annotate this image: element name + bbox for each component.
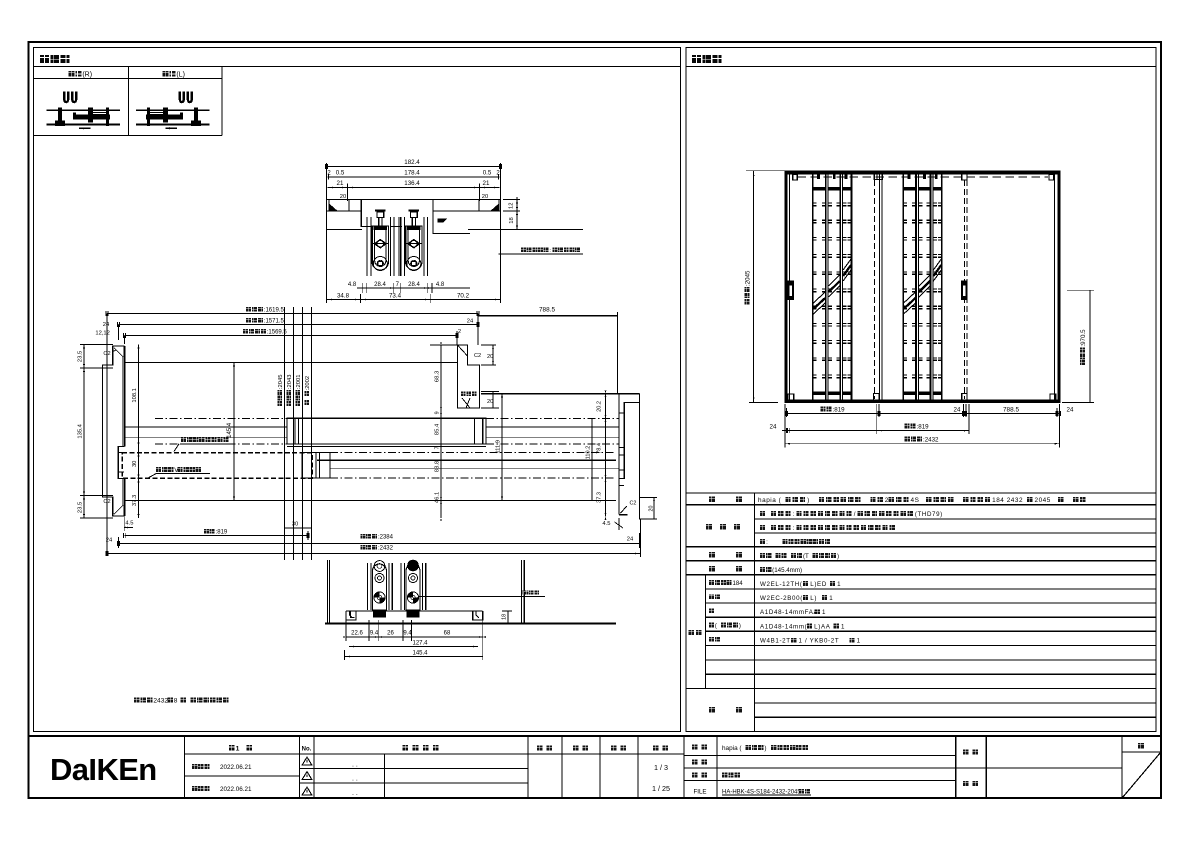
hanger side plates xyxy=(366,217,368,276)
door 2 right end cap xyxy=(473,418,475,444)
svg-text:2: 2 xyxy=(885,497,889,504)
svg-text::1571.5: :1571.5 xyxy=(264,319,285,325)
svg-text:0.5: 0.5 xyxy=(483,170,492,177)
svg-text::1619.5: :1619.5 xyxy=(264,308,285,314)
svg-text:111.9: 111.9 xyxy=(496,440,502,454)
svg-text:2022.06.21: 2022.06.21 xyxy=(220,764,252,771)
door 1 travel dash-dot right xyxy=(330,452,616,454)
svg-text:136.4: 136.4 xyxy=(404,180,420,187)
spec table 品番 column line xyxy=(705,575,707,689)
svg-text:20: 20 xyxy=(482,194,488,200)
svg-text::2432: :2432 xyxy=(923,437,939,444)
svg-text:C2: C2 xyxy=(103,351,110,357)
svg-text:182.4: 182.4 xyxy=(404,159,420,166)
svg-text:28.4: 28.4 xyxy=(408,282,420,288)
svg-text:8: 8 xyxy=(174,698,178,705)
hanger wheel xyxy=(407,239,421,249)
svg-text:12: 12 xyxy=(509,203,515,209)
svg-text:L): L) xyxy=(810,595,817,602)
door1 handle xyxy=(788,280,795,300)
svg-text:18: 18 xyxy=(509,217,515,223)
corner stop top-left xyxy=(793,175,798,180)
svg-text:(L): (L) xyxy=(176,72,185,79)
door 1 end cap 引手側 xyxy=(302,453,330,479)
floor guide bolt xyxy=(407,592,418,603)
housing stop mark xyxy=(438,219,446,222)
svg-text:DaIKEn: DaIKEn xyxy=(50,752,157,787)
T guide right xyxy=(473,611,483,620)
pictogram arrow xyxy=(79,127,90,129)
svg-text:): ) xyxy=(739,623,741,629)
svg-text:4.5: 4.5 xyxy=(602,521,610,527)
spec table row lines xyxy=(686,504,1156,506)
pictogram upper door stack xyxy=(163,108,168,123)
svg-text:73.4: 73.4 xyxy=(389,293,402,300)
svg-text:88.8: 88.8 xyxy=(435,461,441,472)
pictogram lower door bar xyxy=(73,115,110,120)
T guide mid-left xyxy=(351,611,355,618)
right jamb dims 20.2 78.4 110.2 37.3 xyxy=(605,394,607,517)
svg-text:127.4: 127.4 xyxy=(412,641,428,647)
bottom detail dims 22.6 9.4 26 9.4 68 xyxy=(346,636,483,638)
bottom detail pocket walls right xyxy=(520,560,522,624)
plan top dim 枠外幅1619.5 xyxy=(246,307,263,312)
svg-text:C2: C2 xyxy=(474,353,481,359)
svg-text:W2EL-12TH(R: W2EL-12TH(R xyxy=(760,581,808,588)
frame inner face lines xyxy=(789,175,791,401)
svg-text:(: ( xyxy=(715,623,717,629)
header 第1版 xyxy=(229,745,235,750)
plan dim 145.4 (wall depth) xyxy=(233,362,235,500)
svg-text:1 / YKB0-2T: 1 / YKB0-2T xyxy=(799,638,840,645)
plan wall line top xyxy=(124,361,457,363)
slat band verticals xyxy=(902,172,904,399)
svg-text:1 / 25: 1 / 25 xyxy=(652,784,670,793)
header 作成 xyxy=(611,745,617,750)
plan thin lines xyxy=(124,426,287,428)
pictogram cut hooks xyxy=(64,92,68,103)
svg-text:37.3: 37.3 xyxy=(597,492,603,503)
svg-text:. .: . . xyxy=(352,790,358,797)
svg-text:108.1: 108.1 xyxy=(132,388,138,403)
label 頁 xyxy=(1138,743,1144,749)
floor guide body xyxy=(373,564,387,610)
plan top dim 有効開口1569.5 xyxy=(243,329,266,334)
svg-text::: : xyxy=(766,539,768,546)
section table grid xyxy=(34,78,223,80)
slat band top caps xyxy=(813,187,825,191)
hanger top bar xyxy=(407,226,421,230)
catch dim 20 lower xyxy=(492,392,494,409)
floor guide body xyxy=(406,564,420,610)
plan opening line right section xyxy=(481,393,616,395)
spec label 仕上げ xyxy=(706,524,712,530)
svg-text:20.2: 20.2 xyxy=(597,401,603,412)
floor guide side plates xyxy=(367,563,369,610)
front frame inner bottom lines xyxy=(785,400,1060,402)
pictogram top wall line xyxy=(136,109,210,111)
svg-text:C2: C2 xyxy=(103,499,110,505)
svg-text:1: 1 xyxy=(236,746,240,753)
svg-text:145.4: 145.4 xyxy=(227,422,233,438)
svg-text:24: 24 xyxy=(627,537,634,543)
plan dim 111.9 xyxy=(501,394,503,501)
revision desc sub column xyxy=(384,754,386,798)
front bottom dim row3 枠外幅2432 xyxy=(785,443,1060,445)
floor guide marks at door bottoms xyxy=(874,394,879,401)
corner stop top-right xyxy=(1049,175,1054,180)
svg-text:(R): (R) xyxy=(82,72,92,79)
top rail top edge xyxy=(327,199,501,201)
cell label 右引(R) xyxy=(69,71,82,77)
right jamb internal tabs xyxy=(619,412,624,414)
slat band bottom caps xyxy=(813,392,825,395)
svg-text::819: :819 xyxy=(917,424,930,431)
floor guide roller mid xyxy=(408,573,417,582)
floor guide roller top xyxy=(374,561,385,572)
svg-text:30: 30 xyxy=(132,461,138,467)
door1 glass diagonal hatch xyxy=(813,292,825,303)
catch dim 20 upper xyxy=(492,345,494,365)
svg-text:No.: No. xyxy=(302,747,312,753)
svg-text:22.6: 22.6 xyxy=(351,631,363,637)
floor guide foot xyxy=(373,610,386,618)
svg-text:70.2: 70.2 xyxy=(457,293,470,300)
top detail bottom dims 34.8 73.4 70.2 xyxy=(327,299,501,301)
svg-text::2002: :2002 xyxy=(305,376,311,391)
door 2 panel (rear, solid) xyxy=(287,418,486,444)
svg-text:4S: 4S xyxy=(911,497,920,504)
bottom detail dim 18 xyxy=(507,611,509,624)
svg-text:78.4: 78.4 xyxy=(597,443,603,454)
svg-text:0.5: 0.5 xyxy=(336,170,345,177)
door2 right edge dashed xyxy=(963,180,965,399)
pictogram arrow xyxy=(165,127,176,129)
door1 meeting stile dashed edge xyxy=(873,180,875,399)
svg-text:1: 1 xyxy=(841,623,845,630)
svg-text:30: 30 xyxy=(292,522,298,528)
left jamb profile xyxy=(102,346,124,516)
svg-text:(T: (T xyxy=(803,553,809,560)
svg-text:110.2: 110.2 xyxy=(586,446,592,460)
spec table outer frame xyxy=(686,493,1156,731)
trailing edge top guide box xyxy=(962,174,967,180)
svg-text:2022.06.21: 2022.06.21 xyxy=(220,786,252,793)
svg-text:(THD79): (THD79) xyxy=(915,511,943,518)
hanger wheel xyxy=(373,239,387,249)
floor guide roller mid xyxy=(375,573,384,582)
hanger body xyxy=(372,226,388,270)
svg-text:145.4: 145.4 xyxy=(412,651,428,657)
center catch profile xyxy=(458,345,480,408)
bottom detail dim 145.4 xyxy=(345,656,483,658)
left jamb dims 23.5 135.4 23.5 xyxy=(83,345,85,519)
door 2 travel dash-dot right xyxy=(486,417,619,419)
svg-text:184 2432: 184 2432 xyxy=(992,497,1023,504)
svg-text::: : xyxy=(793,511,795,518)
svg-text:788.5: 788.5 xyxy=(539,307,555,314)
svg-text:W2EC-2B00(R: W2EC-2B00(R xyxy=(760,595,808,602)
spec label 品番 xyxy=(689,630,695,635)
svg-text:20: 20 xyxy=(340,194,346,200)
svg-text::2001: :2001 xyxy=(296,375,302,390)
floor line xyxy=(325,623,616,625)
svg-text:): ) xyxy=(837,553,839,560)
inner border left panel xyxy=(34,48,681,732)
pictogram cut hooks xyxy=(188,92,192,103)
hanger lower bolt xyxy=(373,257,387,271)
svg-text:20: 20 xyxy=(487,354,493,360)
title block horizontals left xyxy=(185,753,685,755)
left jamb pocket recess xyxy=(118,447,124,479)
svg-text:2045: 2045 xyxy=(1034,497,1050,504)
value 改訂日 xyxy=(192,786,210,791)
pictogram lower door bar xyxy=(146,115,183,120)
pictogram upper door stack xyxy=(88,108,93,123)
svg-text::: : xyxy=(793,525,795,532)
svg-text:68.3: 68.3 xyxy=(435,371,441,382)
base plate xyxy=(346,610,483,612)
front dim 内法高2045 xyxy=(753,171,755,403)
plan bottom dim 内法幅2384 xyxy=(360,534,377,539)
value 図名 xyxy=(722,773,740,778)
left panel title 断面図 xyxy=(40,55,69,63)
svg-text:1: 1 xyxy=(837,581,841,588)
label 図員 xyxy=(963,781,968,786)
svg-text::819: :819 xyxy=(216,530,228,536)
door 1 panel (front, dashed open position) xyxy=(122,453,312,479)
svg-text:23.5: 23.5 xyxy=(78,351,84,362)
slat tick rows xyxy=(813,202,816,204)
svg-text::2432: :2432 xyxy=(378,546,394,552)
svg-text:178.4: 178.4 xyxy=(404,170,420,177)
svg-text:24: 24 xyxy=(770,424,777,431)
svg-text:FILE: FILE xyxy=(693,789,706,796)
top detail bottom dims 4.8 28.4 7 28.4 4.8 xyxy=(357,287,470,289)
svg-text:21: 21 xyxy=(483,180,490,187)
svg-text:9.4: 9.4 xyxy=(403,631,412,637)
corner stop bottom-left xyxy=(788,394,794,400)
vertical cut line 枠外高2045 xyxy=(284,307,286,560)
spec sub labels xyxy=(709,580,732,585)
left jamb dims 108.1 30 37.3 xyxy=(138,345,140,519)
svg-text:24: 24 xyxy=(1067,407,1074,414)
svg-text:21: 21 xyxy=(337,180,344,187)
mohair label and symbol xyxy=(461,392,477,396)
svg-text:A1D48-14mm(R: A1D48-14mm(R xyxy=(760,623,813,630)
spec label 要式 xyxy=(709,496,715,502)
svg-text:1: 1 xyxy=(829,595,833,602)
pictogram top wall line xyxy=(47,109,121,111)
title block top edge xyxy=(29,735,1162,737)
slat band top caps xyxy=(904,187,916,191)
hanger box at meeting stile xyxy=(874,174,882,179)
svg-text:7: 7 xyxy=(435,446,441,449)
svg-text:28.4: 28.4 xyxy=(374,282,386,288)
svg-text::2045: :2045 xyxy=(278,375,284,390)
inner border right panel xyxy=(686,48,1156,732)
pictogram base line xyxy=(47,123,121,125)
track dashed line xyxy=(798,176,1049,178)
svg-text:1 / 3: 1 / 3 xyxy=(654,763,668,772)
spec label 備考 xyxy=(709,707,715,713)
plan wall line bottom xyxy=(124,500,616,502)
header 承認 xyxy=(537,745,543,750)
page diagonal xyxy=(1123,753,1161,798)
pictogram jamb xyxy=(58,108,62,121)
header 改訂履歴 xyxy=(402,745,408,750)
floor guide foot xyxy=(407,610,420,618)
svg-text:2: 2 xyxy=(458,329,461,335)
slat top tabs xyxy=(908,175,911,180)
svg-text:26: 26 xyxy=(387,631,394,637)
svg-text::2384: :2384 xyxy=(378,535,394,541)
slat tick rows xyxy=(904,202,907,204)
slat band bottom caps xyxy=(904,392,916,395)
leader note 引戸用Vキャップ xyxy=(156,467,173,472)
leader note 召合せ部材取付 xyxy=(181,437,229,442)
svg-text:46.1: 46.1 xyxy=(435,492,441,503)
dims 12 and 18 right of rail xyxy=(516,197,518,230)
svg-text:135.4: 135.4 xyxy=(78,423,84,438)
svg-text:23.5: 23.5 xyxy=(78,502,84,513)
svg-text:W4B1-2T: W4B1-2T xyxy=(760,638,791,645)
vertical cut line 内法高2043 xyxy=(293,307,295,560)
svg-text:hapia (: hapia ( xyxy=(722,745,742,752)
hanger side plates xyxy=(399,217,401,276)
svg-text:hapia (: hapia ( xyxy=(758,497,782,504)
svg-text:A1D48-14mmFAA: A1D48-14mmFAA xyxy=(760,609,819,616)
header 縮尺 xyxy=(653,745,659,750)
door2 handle xyxy=(961,280,968,300)
cell label 左引(L) xyxy=(163,71,176,77)
hanger lower bolt xyxy=(407,257,421,271)
slat band verticals xyxy=(812,172,814,399)
svg-text:34.8: 34.8 xyxy=(337,293,350,300)
svg-text:24: 24 xyxy=(106,538,113,544)
top rail left end block with chamfer xyxy=(329,200,349,212)
svg-text:): ) xyxy=(807,497,810,504)
labels 名称品番図名FILE xyxy=(692,745,697,750)
svg-text:68: 68 xyxy=(444,631,451,637)
bottom detail dim 127.4 xyxy=(349,646,478,648)
spec label 把手 xyxy=(709,552,715,558)
revision triangles xyxy=(302,757,312,765)
svg-text:24: 24 xyxy=(103,322,110,328)
front bottom dim row1 戸幅819 24 788.5 24 xyxy=(787,413,1060,415)
header 確認 xyxy=(573,745,579,750)
plan bottom dim 戸幅819 xyxy=(204,529,215,534)
sheet note xyxy=(134,697,152,702)
door2 glass diagonal hatch xyxy=(904,292,916,303)
svg-text:L)ED: L)ED xyxy=(810,581,827,588)
track housing xyxy=(361,200,470,234)
plan top dim 枠内幅1571.5 xyxy=(246,318,263,323)
right jamb profile xyxy=(618,394,620,515)
svg-text::2043: :2043 xyxy=(287,375,293,390)
door 2 travel dash-dot left xyxy=(155,417,287,419)
svg-text:24: 24 xyxy=(954,407,961,414)
svg-text:1: 1 xyxy=(857,638,861,645)
svg-text:. .: . . xyxy=(352,776,358,783)
front bottom dim row2 24 戸幅819 xyxy=(782,430,969,432)
plan bottom dim 枠外幅2432 xyxy=(360,545,377,550)
door meeting lines below hangers xyxy=(398,217,400,276)
svg-text:184: 184 xyxy=(733,581,744,587)
title block horizontals right xyxy=(684,755,956,757)
label 件名 xyxy=(963,750,968,755)
hanger bolt xyxy=(409,210,419,212)
T guide left xyxy=(346,611,356,620)
svg-text:18: 18 xyxy=(502,614,508,620)
svg-text:(145.4mm): (145.4mm) xyxy=(772,567,802,574)
corner stop bottom-right xyxy=(1050,394,1056,400)
hanger body xyxy=(406,226,422,270)
bottom detail pocket walls left xyxy=(327,560,329,624)
track center thick line xyxy=(317,459,616,461)
spec table label column line xyxy=(753,493,755,731)
svg-text:9.4: 9.4 xyxy=(370,631,379,637)
svg-text:. .: . . xyxy=(352,762,358,769)
svg-text::970.5: :970.5 xyxy=(1080,329,1087,347)
svg-text:2432: 2432 xyxy=(153,698,168,705)
rail lower line xyxy=(327,229,362,231)
svg-text:4.8: 4.8 xyxy=(436,282,445,288)
right jamb dim 20 bottom xyxy=(653,498,655,519)
door2 left stile edges xyxy=(879,172,881,399)
vertical cut line 戸高2002 xyxy=(311,307,313,560)
svg-text:24: 24 xyxy=(467,319,474,325)
hanger top bar xyxy=(373,226,387,230)
svg-text:1: 1 xyxy=(822,609,826,616)
svg-text:9: 9 xyxy=(435,411,441,414)
value 制定日 xyxy=(192,764,210,769)
svg-text:4.5: 4.5 xyxy=(125,521,133,527)
svg-text:20: 20 xyxy=(487,399,493,405)
svg-text:C2: C2 xyxy=(630,501,637,507)
front view frame outline xyxy=(786,172,1059,401)
svg-text:): ) xyxy=(764,745,766,752)
pictogram base line xyxy=(136,123,210,125)
svg-text:788.5: 788.5 xyxy=(1003,407,1019,414)
spec label 見込 xyxy=(709,566,715,572)
floor guide side plates xyxy=(400,563,402,610)
svg-text::2045: :2045 xyxy=(745,270,752,286)
vertical cut line 開口高2001 xyxy=(302,307,304,560)
floor guide bolt xyxy=(374,592,385,603)
svg-text:4.8: 4.8 xyxy=(348,282,357,288)
slat top tabs xyxy=(817,175,820,180)
floor guide roller top xyxy=(407,560,419,572)
top rail right end block with chamfer xyxy=(479,200,499,212)
rail note 吊戸レール xyxy=(521,248,549,253)
svg-text:L)AA: L)AA xyxy=(814,623,831,630)
top rail underside xyxy=(327,210,362,212)
title block verticals xyxy=(184,736,186,798)
right panel title 正面図 xyxy=(692,55,721,63)
svg-text:85.4: 85.4 xyxy=(435,423,441,435)
pictogram jamb xyxy=(194,108,198,121)
svg-text:/: / xyxy=(854,511,856,518)
plan dim 30 (cut lines) xyxy=(285,527,312,529)
hanger bolt xyxy=(375,210,385,212)
svg-text::819: :819 xyxy=(833,407,846,414)
svg-text:20: 20 xyxy=(649,506,655,512)
front dim 引手高970.5 xyxy=(1089,290,1091,402)
extension verticals from top dims xyxy=(106,314,108,557)
plan stack dims 68.3 9 85.4 7 88.8 46.1 xyxy=(440,345,442,518)
svg-text:12,12: 12,12 xyxy=(95,331,110,337)
